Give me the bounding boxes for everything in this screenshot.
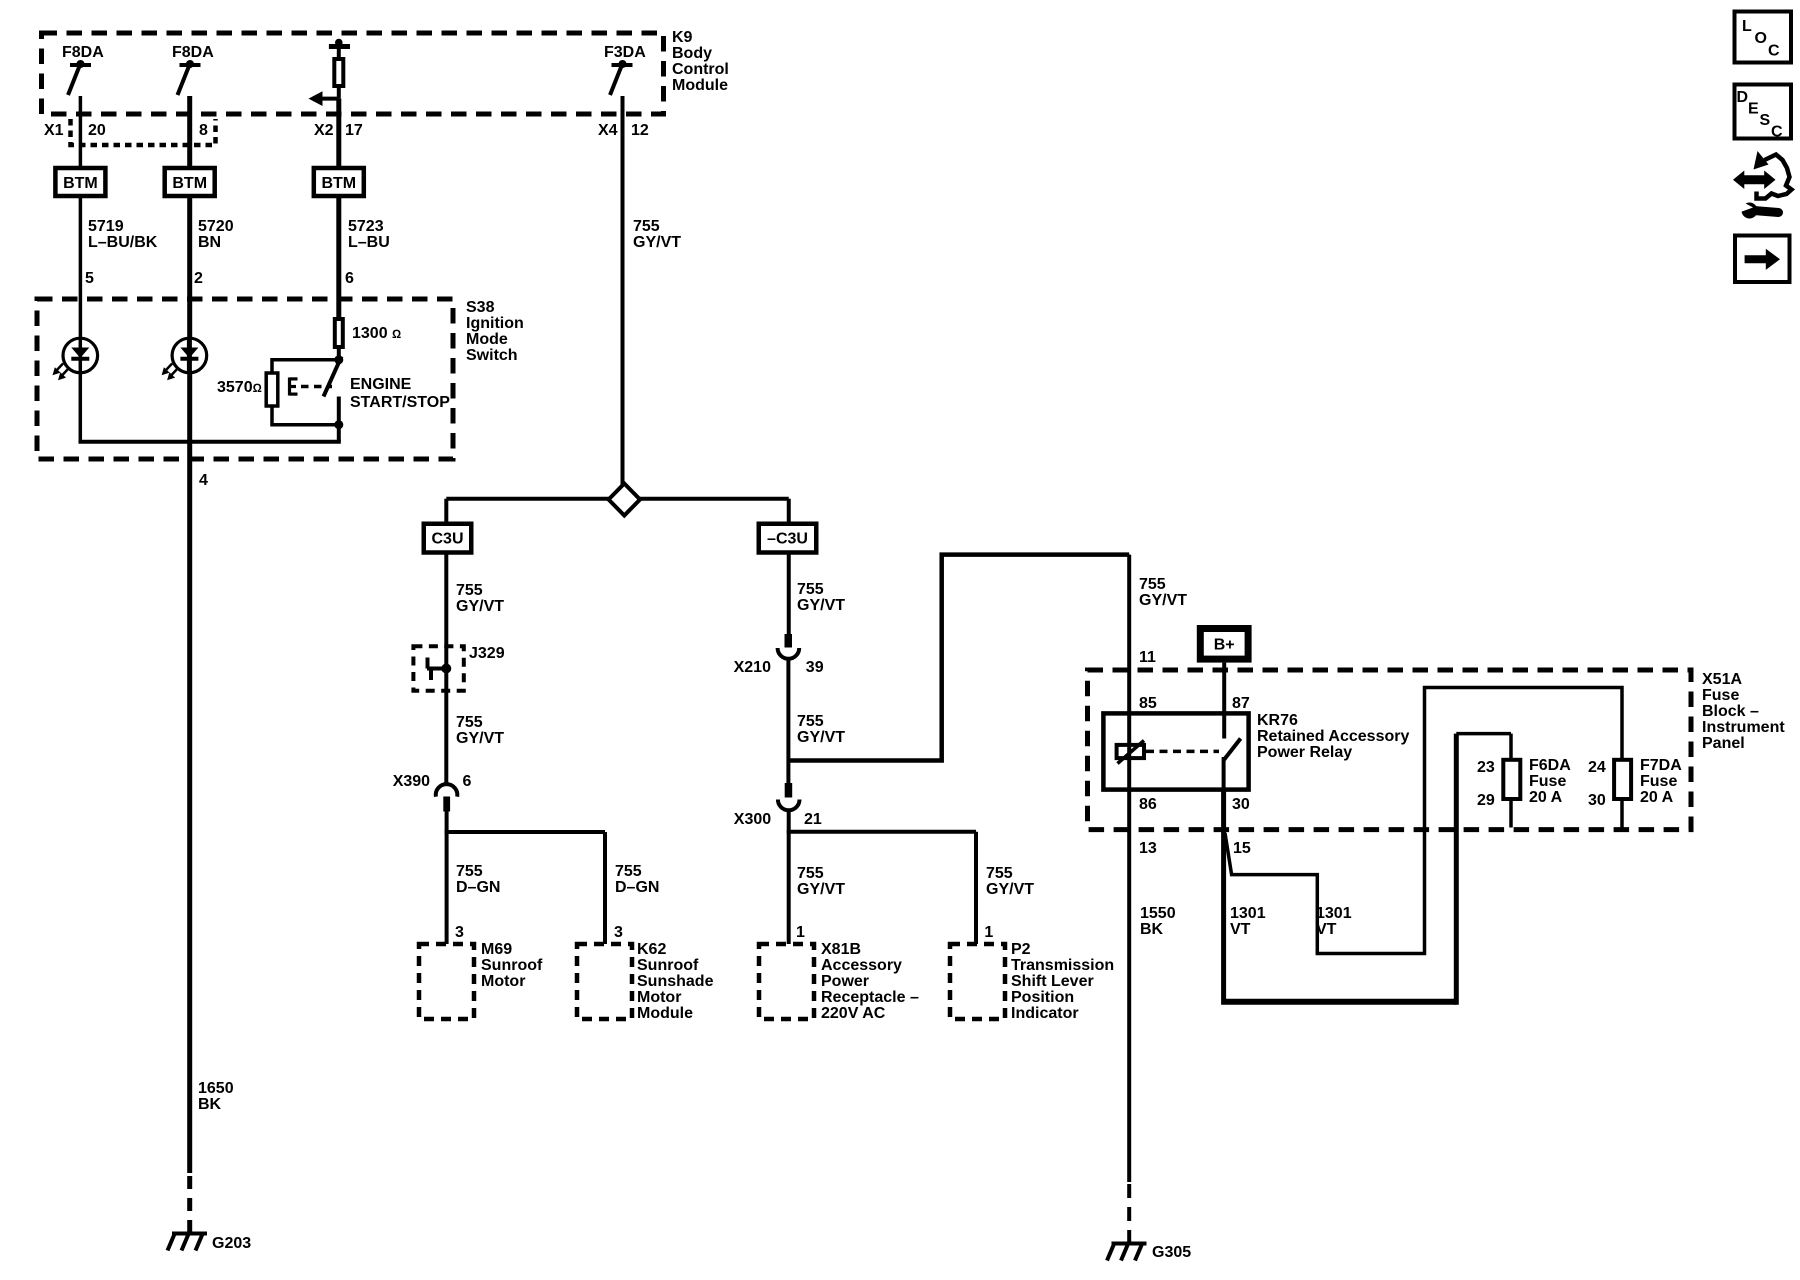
svg-text:Panel: Panel [1702, 735, 1745, 752]
svg-text:X51A: X51A [1702, 671, 1742, 688]
terminal B+ [1200, 629, 1248, 660]
svg-text:D–GN: D–GN [615, 879, 659, 896]
svg-text:Transmission: Transmission [1011, 957, 1114, 974]
module P2 Transmission Shift Lever Position Indicator [950, 941, 1114, 1022]
svg-text:F3DA: F3DA [604, 44, 646, 61]
connector pin F3DA (X4 pin 12) [604, 44, 646, 95]
wire B+ to relay 87 [1222, 663, 1226, 739]
svg-text:Fuse: Fuse [1529, 773, 1566, 790]
wire 755 D-GN to K62 [605, 832, 659, 944]
ground G305 [1107, 1184, 1191, 1261]
svg-text:BK: BK [198, 1096, 222, 1113]
wire 755 GY/VT from X4-12 [623, 96, 682, 488]
svg-text:D–GN: D–GN [456, 879, 500, 896]
svg-text:Fuse: Fuse [1640, 773, 1677, 790]
svg-text:3: 3 [455, 924, 464, 941]
connector pin F8DA (X1 pin 8) [172, 44, 214, 95]
svg-text:X300: X300 [734, 811, 771, 828]
svg-text:F7DA: F7DA [1640, 757, 1682, 774]
resistor element (X2 pin 17) [329, 39, 350, 99]
KR76 label [1257, 712, 1409, 761]
svg-text:1: 1 [796, 924, 805, 941]
connector X210 [734, 634, 824, 763]
S38 label [466, 299, 524, 364]
svg-text:17: 17 [345, 122, 363, 139]
svg-text:24: 24 [1588, 759, 1606, 776]
relay coil dashed link [1146, 750, 1219, 754]
wire 755 GY/VT C3U to J329 [446, 553, 504, 649]
X51A label [1702, 671, 1785, 752]
svg-text:220V AC: 220V AC [821, 1005, 886, 1022]
ground G203 [168, 1176, 252, 1252]
switch S38 Ignition Mode Switch dashed box [37, 299, 453, 459]
svg-text:30: 30 [1232, 796, 1250, 813]
wire 755 GY/VT X210 to X300 [797, 713, 845, 746]
svg-text:J329: J329 [469, 645, 505, 662]
wire 755 D-GN to M69 [447, 832, 501, 944]
terminal BTM 1 [55, 168, 105, 196]
svg-text:1300 Ω: 1300 Ω [352, 325, 401, 342]
svg-text:BTM: BTM [63, 175, 98, 192]
fuse block X51A dashed box [1088, 670, 1692, 830]
icon LOC [1735, 12, 1792, 63]
svg-text:30: 30 [1588, 792, 1606, 809]
svg-text:755: 755 [1139, 576, 1166, 593]
svg-text:M69: M69 [481, 941, 512, 958]
terminal BTM 3 [314, 168, 364, 196]
svg-text:P2: P2 [1011, 941, 1031, 958]
svg-text:X390: X390 [393, 773, 430, 790]
svg-text:VT: VT [1316, 921, 1337, 938]
svg-text:1301: 1301 [1316, 905, 1352, 922]
svg-text:Module: Module [672, 77, 728, 94]
svg-text:–C3U: –C3U [767, 531, 808, 548]
terminal BTM 2 [165, 168, 215, 196]
svg-text:Module: Module [637, 1005, 693, 1022]
svg-text:L–BU/BK: L–BU/BK [88, 234, 158, 251]
svg-text:Body: Body [672, 45, 712, 62]
resistor 3570 ohm [217, 360, 339, 425]
wire 755 GY/VT -C3U to X210 [789, 553, 845, 635]
svg-text:Instrument: Instrument [1702, 719, 1785, 736]
connector -C3U [759, 499, 817, 553]
svg-text:1550: 1550 [1140, 905, 1176, 922]
svg-text:4: 4 [199, 472, 208, 489]
module K9 Body Control Module dashed box [42, 33, 664, 114]
svg-text:Sunshade: Sunshade [637, 973, 714, 990]
svg-text:13: 13 [1139, 840, 1157, 857]
svg-text:ENGINE: ENGINE [350, 376, 412, 393]
svg-text:20: 20 [88, 122, 106, 139]
svg-text:E: E [1748, 101, 1759, 118]
svg-text:6: 6 [345, 270, 354, 287]
wire branch to fuse block [788, 555, 1129, 761]
K9 label [672, 29, 729, 94]
svg-text:5723: 5723 [348, 218, 384, 235]
wire 755 GY/VT to P2 [976, 832, 1034, 944]
svg-text:KR76: KR76 [1257, 712, 1298, 729]
svg-text:2: 2 [194, 270, 203, 287]
wire 1301 VT thick path pin 30 to F6DA [1221, 734, 1511, 1005]
svg-text:5719: 5719 [88, 218, 124, 235]
pin 86 [1139, 796, 1157, 813]
svg-text:X4: X4 [598, 122, 618, 139]
relay KR76 box [1103, 713, 1248, 789]
svg-text:GY/VT: GY/VT [633, 234, 681, 251]
svg-text:Motor: Motor [637, 989, 681, 1006]
fuse F6DA 20A [1477, 757, 1571, 828]
svg-text:GY/VT: GY/VT [456, 598, 504, 615]
svg-text:755: 755 [456, 714, 483, 731]
svg-text:F8DA: F8DA [172, 44, 214, 61]
svg-text:3: 3 [614, 924, 623, 941]
module K62 Sunroof Sunshade Motor Module [577, 941, 714, 1022]
svg-text:20 A: 20 A [1640, 789, 1674, 806]
svg-text:Power: Power [821, 973, 869, 990]
svg-text:G305: G305 [1152, 1244, 1191, 1261]
indicator lamp 1 [53, 338, 98, 380]
svg-text:87: 87 [1232, 695, 1250, 712]
svg-text:Indicator: Indicator [1011, 1005, 1079, 1022]
switch ENGINE START/STOP [290, 349, 451, 429]
node X4 pin 12 labels [598, 122, 649, 139]
wire X2-17 to BTM [336, 99, 341, 168]
svg-text:GY/VT: GY/VT [797, 597, 845, 614]
svg-text:1301: 1301 [1230, 905, 1266, 922]
svg-text:12: 12 [631, 122, 649, 139]
wire branch to sunroof motors [445, 830, 605, 834]
svg-text:Position: Position [1011, 989, 1074, 1006]
wire 755 GY/VT to fuse block pin 11 [1129, 555, 1187, 714]
svg-text:Control: Control [672, 61, 729, 78]
svg-text:C: C [1768, 43, 1780, 60]
svg-text:X210: X210 [734, 659, 771, 676]
wire X1-20 to BTM [79, 96, 83, 168]
svg-text:L–BU: L–BU [348, 234, 390, 251]
svg-text:C3U: C3U [431, 531, 463, 548]
svg-text:Ignition: Ignition [466, 315, 524, 332]
svg-text:L: L [1742, 18, 1752, 35]
pin 30 [1232, 796, 1250, 813]
splice diamond [446, 484, 788, 516]
svg-text:GY/VT: GY/VT [456, 730, 504, 747]
svg-text:755: 755 [986, 865, 1013, 882]
connector X390 [393, 773, 472, 832]
arrow at X2-17 [309, 91, 339, 106]
icon harness arrows and wrench [1733, 151, 1792, 219]
svg-text:BN: BN [198, 234, 221, 251]
connector pin F8DA (X1 pin 20) [62, 44, 104, 95]
connector X1 bracket [44, 119, 216, 145]
node X2 pin 17 labels [314, 122, 363, 139]
connector X300 [734, 763, 822, 833]
svg-text:Motor: Motor [481, 973, 525, 990]
wire 1650 BK pin 4 to ground [190, 373, 234, 1173]
icon next arrow [1735, 236, 1790, 283]
svg-text:8: 8 [199, 122, 208, 139]
svg-text:755: 755 [797, 865, 824, 882]
svg-text:GY/VT: GY/VT [797, 729, 845, 746]
relay contact blade [1223, 739, 1240, 790]
wire 755 GY/VT J329 to X390 [446, 690, 504, 785]
svg-text:755: 755 [797, 581, 824, 598]
svg-text:GY/VT: GY/VT [986, 881, 1034, 898]
svg-text:K9: K9 [672, 29, 693, 46]
svg-text:755: 755 [456, 863, 483, 880]
svg-text:K62: K62 [637, 941, 666, 958]
svg-text:755: 755 [633, 218, 660, 235]
svg-text:86: 86 [1139, 796, 1157, 813]
svg-text:Retained Accessory: Retained Accessory [1257, 728, 1409, 745]
wire 1550 BK pin 13 to G305 [1129, 790, 1175, 1182]
svg-text:Fuse: Fuse [1702, 687, 1739, 704]
svg-text:1: 1 [984, 924, 993, 941]
svg-text:GY/VT: GY/VT [1139, 592, 1187, 609]
svg-text:6: 6 [463, 773, 472, 790]
indicator lamp 2 [162, 338, 207, 380]
wire lamp1 down [79, 373, 83, 442]
svg-text:11: 11 [1139, 649, 1156, 666]
pin 87 [1232, 695, 1250, 712]
svg-text:F6DA: F6DA [1529, 757, 1571, 774]
svg-text:755: 755 [797, 713, 824, 730]
splice J329 [413, 645, 504, 692]
wire 5723 L-BU [339, 196, 390, 318]
wire S38 internal bus [79, 425, 341, 442]
icon DESC [1735, 85, 1792, 141]
svg-text:BTM: BTM [321, 175, 356, 192]
svg-text:3570Ω: 3570Ω [217, 379, 262, 396]
svg-text:755: 755 [456, 582, 483, 599]
wire 755 GY/VT to X81B [789, 832, 846, 944]
svg-text:Power Relay: Power Relay [1257, 744, 1352, 761]
svg-text:START/STOP: START/STOP [350, 394, 450, 411]
svg-text:23: 23 [1477, 759, 1495, 776]
wire 1301 VT thin path pin 15 to F7DA [1225, 688, 1622, 954]
svg-text:39: 39 [806, 659, 824, 676]
svg-text:20 A: 20 A [1529, 789, 1563, 806]
svg-text:Mode: Mode [466, 331, 508, 348]
svg-text:O: O [1755, 30, 1767, 47]
svg-text:F8DA: F8DA [62, 44, 104, 61]
connector C3U [424, 499, 472, 553]
svg-text:Sunroof: Sunroof [481, 957, 543, 974]
svg-text:Accessory: Accessory [821, 957, 902, 974]
relay coil [1117, 713, 1144, 789]
svg-text:D: D [1737, 89, 1749, 106]
wire branch to receptacle and indicator [787, 830, 976, 834]
svg-text:X2: X2 [314, 122, 334, 139]
svg-text:Shift Lever: Shift Lever [1011, 973, 1094, 990]
svg-text:B+: B+ [1214, 637, 1235, 654]
svg-text:21: 21 [804, 811, 822, 828]
fuse F7DA 20A [1588, 757, 1682, 828]
svg-text:1650: 1650 [198, 1080, 234, 1097]
svg-text:S: S [1760, 112, 1771, 129]
svg-text:VT: VT [1230, 921, 1251, 938]
svg-text:Receptacle –: Receptacle – [821, 989, 919, 1006]
svg-text:G203: G203 [212, 1235, 251, 1252]
svg-text:Switch: Switch [466, 347, 518, 364]
svg-text:S38: S38 [466, 299, 495, 316]
svg-text:Sunroof: Sunroof [637, 957, 699, 974]
svg-text:BTM: BTM [172, 175, 207, 192]
svg-text:C: C [1771, 124, 1783, 141]
svg-text:X1: X1 [44, 122, 64, 139]
wire 5720 BN [190, 196, 234, 339]
svg-text:15: 15 [1233, 840, 1251, 857]
svg-text:5: 5 [85, 270, 94, 287]
wire 5719 L-BU/BK [80, 196, 157, 339]
svg-text:5720: 5720 [198, 218, 234, 235]
svg-text:29: 29 [1477, 792, 1495, 809]
pin 85 [1139, 695, 1157, 712]
svg-text:BK: BK [1140, 921, 1164, 938]
resistor 1300 ohm [335, 319, 401, 347]
svg-text:755: 755 [615, 863, 642, 880]
svg-text:85: 85 [1139, 695, 1157, 712]
svg-text:X81B: X81B [821, 941, 861, 958]
module X81B Accessory Power Receptacle [759, 941, 919, 1022]
wire X1-8 to BTM [187, 96, 192, 168]
svg-text:GY/VT: GY/VT [797, 881, 845, 898]
svg-text:Block –: Block – [1702, 703, 1759, 720]
module M69 Sunroof Motor [419, 941, 543, 1019]
